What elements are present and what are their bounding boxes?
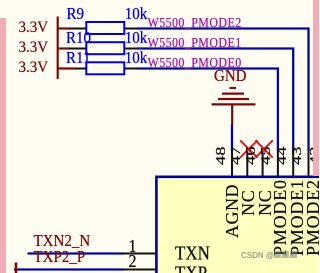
pink app background strip left — [0, 18, 6, 273]
pin name PMODE0 — [271, 179, 289, 256]
pin name PMODE2 — [304, 179, 320, 256]
resistor R10 body — [86, 42, 124, 54]
value 10k (R11) — [125, 51, 148, 68]
wire GND to pin 48 — [231, 125, 233, 152]
designator R11 — [66, 51, 90, 68]
pink app background strip right — [313, 0, 320, 176]
designator R9 — [67, 7, 85, 24]
power port label GND — [214, 69, 247, 86]
pin 2 TXP — [122, 269, 156, 271]
wire stub bottom left — [15, 263, 18, 273]
pin number 2 — [129, 253, 137, 271]
resistor R10 lead right — [123, 48, 138, 50]
pin name AGND — [223, 184, 241, 238]
pin number 45 — [260, 146, 274, 164]
resistor R11 lead left — [75, 68, 87, 70]
no-ERC cross on pin 47 — [240, 140, 257, 157]
value 10k (R10) — [125, 31, 148, 48]
wire net W5500_PMODE1 — [137, 49, 293, 152]
pin name NC (46) — [256, 189, 274, 216]
3.3V power rail vertical wire — [57, 17, 59, 80]
pin name NC (47) — [239, 189, 257, 216]
pin 45 PMODE0 — [277, 149, 279, 176]
wire 3.3V to R10 — [57, 47, 70, 49]
pin 44 PMODE1 — [292, 149, 294, 176]
resistor R11 lead right — [123, 68, 138, 70]
resistor R9 lead left — [69, 28, 87, 30]
pin 46 NC — [262, 148, 264, 177]
pin name TXP — [175, 263, 207, 273]
resistor R9 lead right — [123, 28, 138, 30]
pin number 48 — [215, 146, 229, 164]
net label W5500_PMODE0 — [148, 56, 242, 69]
pin 48 AGND — [231, 149, 233, 176]
wire net TXN2_N — [28, 252, 125, 254]
resistor R10 lead left — [69, 48, 87, 50]
net label W5500_PMODE1 — [148, 36, 242, 49]
wire net TXP2_P — [14, 268, 124, 270]
pin number 1 — [129, 238, 137, 256]
no-ERC cross on pin 46 — [255, 140, 272, 157]
resistor R9 body — [86, 22, 124, 34]
power port 3.3V (R10) — [19, 40, 49, 56]
wire net W5500_PMODE2 — [137, 29, 309, 152]
wire 3.3V to R11 — [57, 67, 76, 69]
pin number 42 (clipped) — [309, 146, 320, 164]
watermark — [241, 251, 297, 260]
designator R10 — [66, 31, 91, 48]
pin 1 TXN — [122, 253, 156, 255]
pin 47 NC — [246, 148, 248, 177]
pin number 44 — [276, 146, 290, 164]
power port 3.3V (R9) — [19, 20, 49, 36]
ground symbol bars — [230, 87, 237, 89]
wire net W5500_PMODE0 — [137, 69, 278, 152]
value 10k (R9) — [125, 7, 148, 24]
pin name TXN — [175, 243, 210, 263]
net label W5500_PMODE2 — [148, 16, 242, 29]
pin number 43 — [291, 146, 305, 164]
pin name PMODE1 — [288, 179, 306, 256]
pin number 46 — [245, 146, 259, 164]
ground stem wire — [231, 104, 233, 124]
net label TXP2_P — [34, 250, 86, 267]
resistor R11 body — [86, 62, 124, 74]
power port 3.3V (R11) — [19, 60, 49, 76]
chip U1 body (top-left corner of W5500 sheet part) — [156, 177, 320, 273]
net label TXN2_N — [34, 234, 91, 251]
wire 3.3V to R9 — [57, 27, 70, 29]
pin number 47 — [230, 146, 244, 164]
pin 43 PMODE2 — [308, 149, 310, 176]
